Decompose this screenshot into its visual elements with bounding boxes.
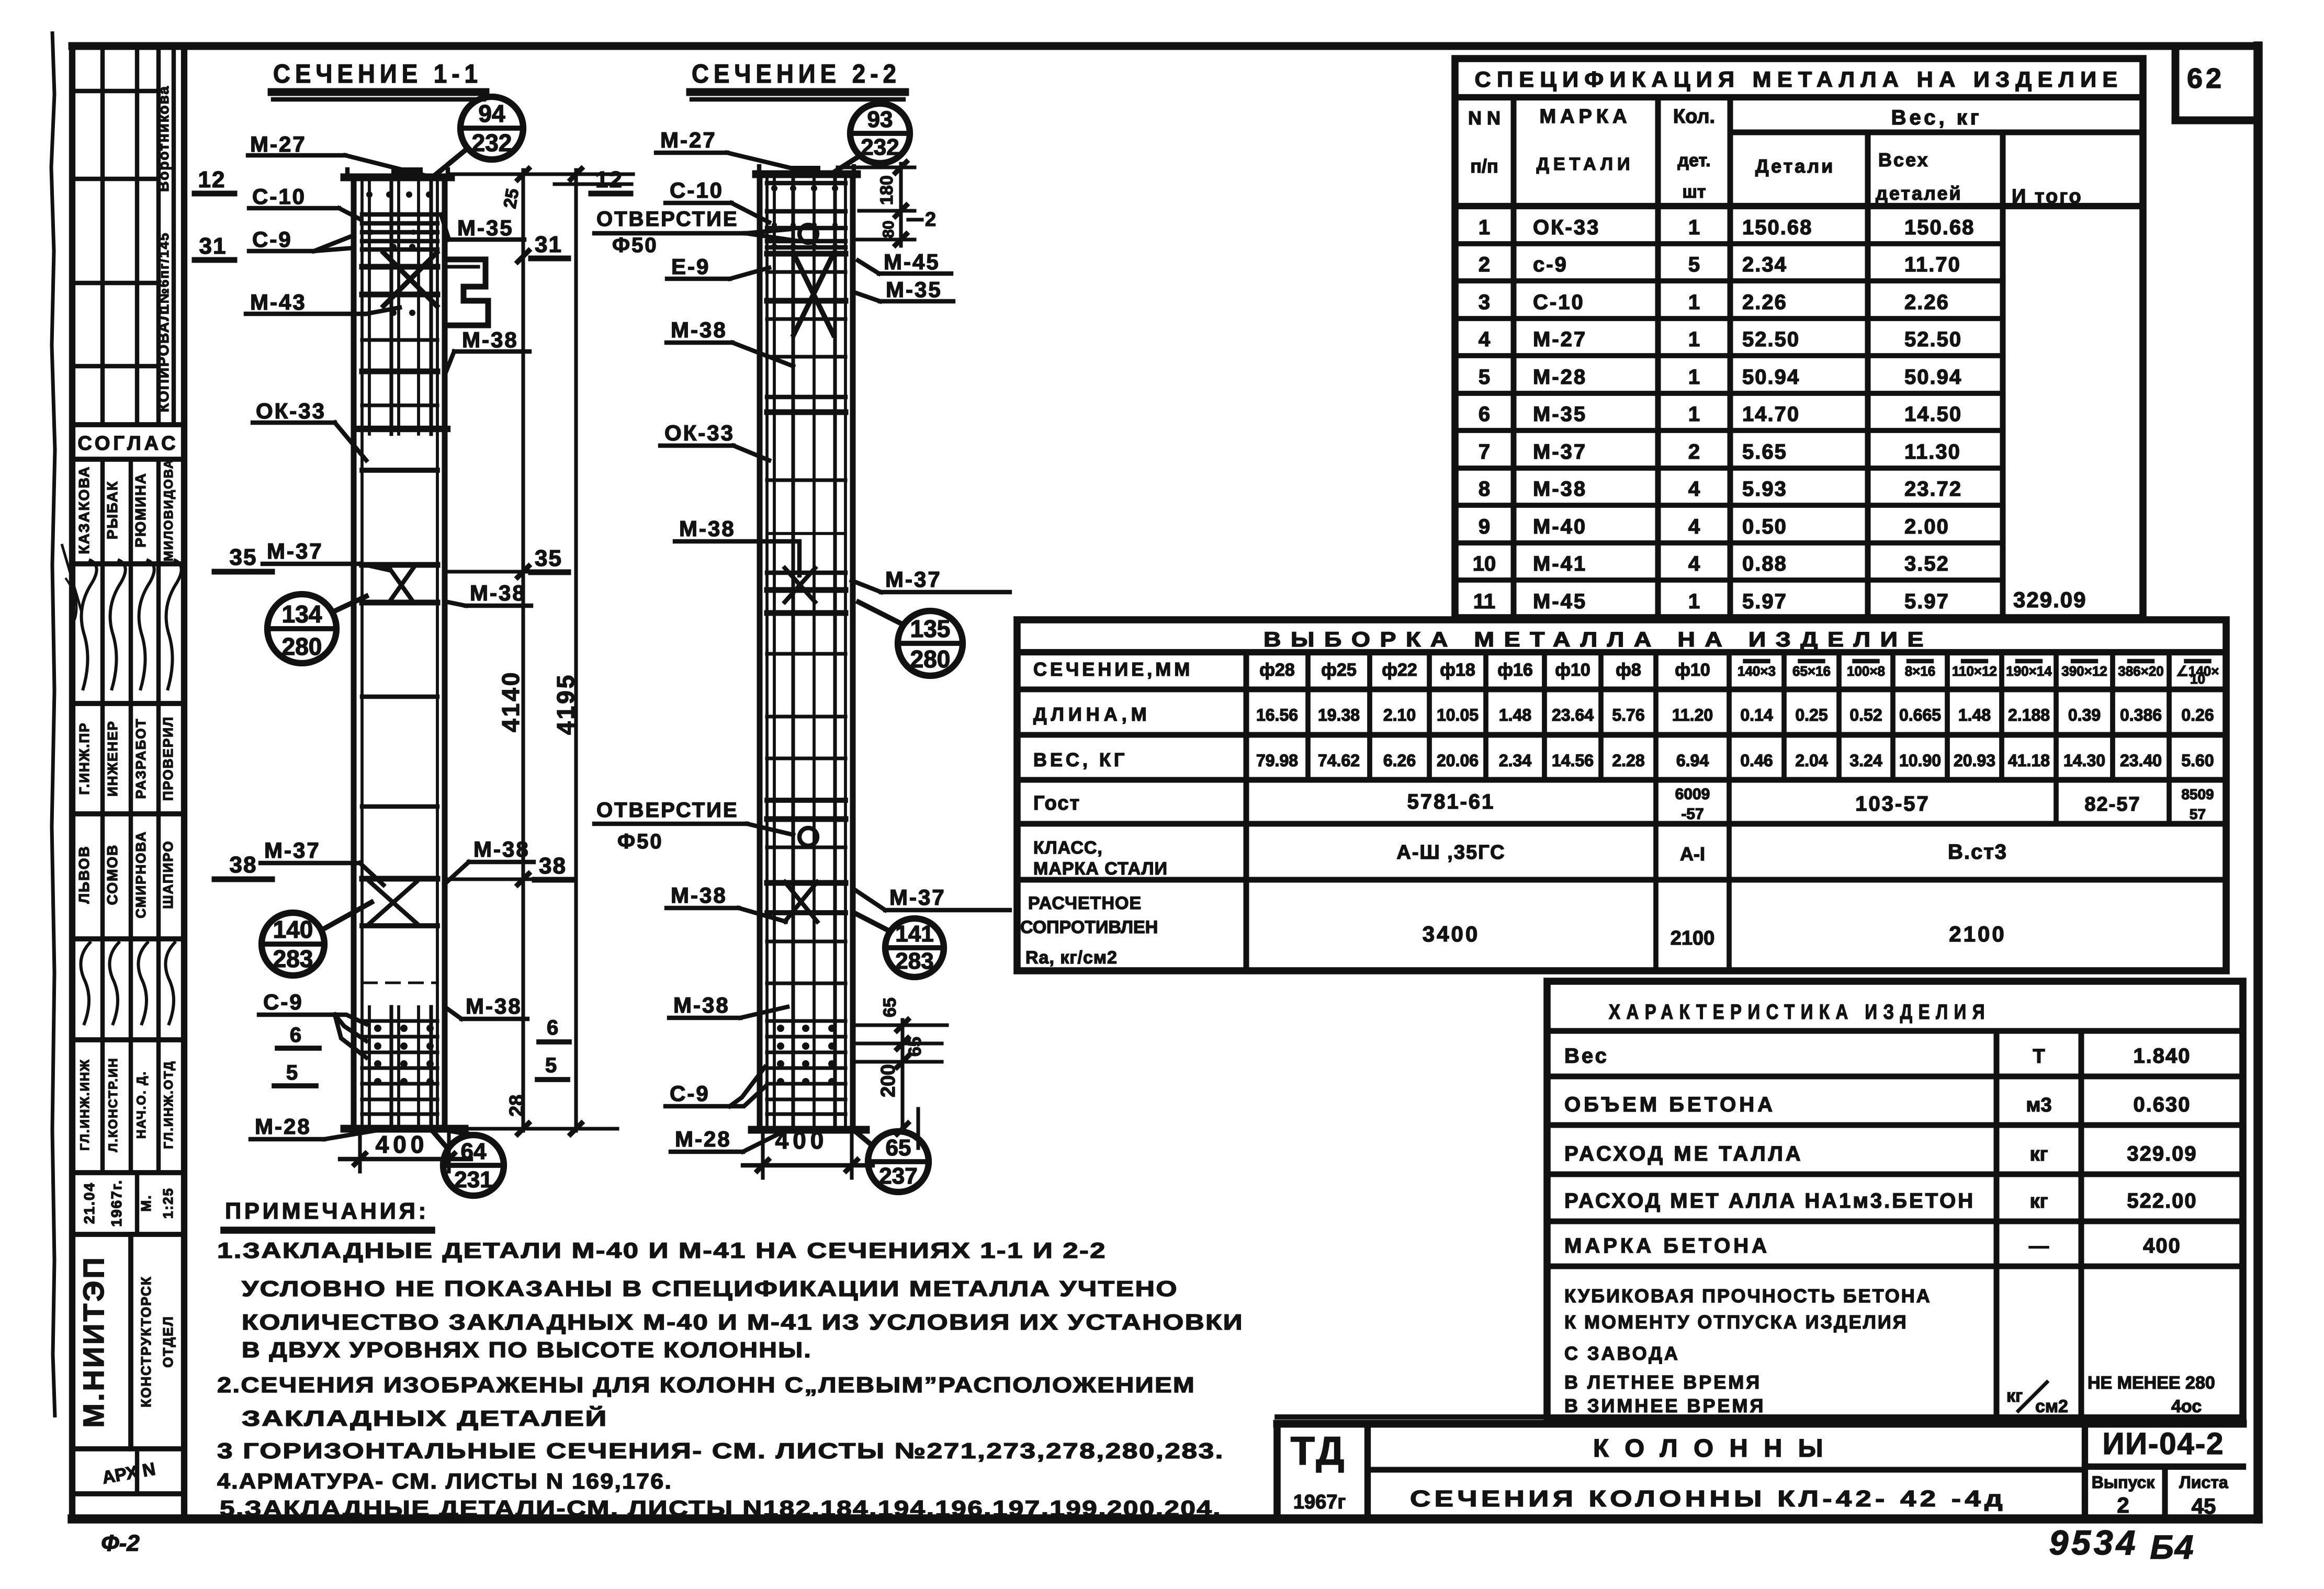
svg-text:6: 6 xyxy=(547,1016,558,1039)
svg-text:2.10: 2.10 xyxy=(1383,706,1416,724)
svg-text:3.52: 3.52 xyxy=(1904,552,1949,575)
svg-text:М-38: М-38 xyxy=(671,317,727,342)
svg-text:9534: 9534 xyxy=(2049,1523,2139,1562)
svg-text:Ф-2: Ф-2 xyxy=(101,1530,140,1556)
svg-text:КУБИКОВАЯ ПРОЧНОСТЬ БЕТОНА: КУБИКОВАЯ ПРОЧНОСТЬ БЕТОНА xyxy=(1564,1285,1932,1307)
svg-text:С ЗАВОДА: С ЗАВОДА xyxy=(1564,1343,1680,1364)
svg-text:38: 38 xyxy=(539,853,567,879)
svg-text:134: 134 xyxy=(282,600,322,628)
svg-text:М-27: М-27 xyxy=(660,128,717,152)
svg-text:3.24: 3.24 xyxy=(1849,751,1882,770)
svg-text:МИЛОВИДОВА: МИЛОВИДОВА xyxy=(162,459,176,562)
svg-text:ЗАКЛАДНЫХ ДЕТАЛЕЙ: ЗАКЛАДНЫХ ДЕТАЛЕЙ xyxy=(242,1405,608,1431)
svg-text:СПЕЦИФИКАЦИЯ МЕТАЛЛА НА ИЗДЕЛИ: СПЕЦИФИКАЦИЯ МЕТАЛЛА НА ИЗДЕЛИЕ xyxy=(1475,67,2124,92)
svg-text:М-45: М-45 xyxy=(1533,590,1587,613)
svg-text:А-I: А-I xyxy=(1680,843,1705,865)
svg-text:В ЛЕТНЕЕ ВРЕМЯ: В ЛЕТНЕЕ ВРЕМЯ xyxy=(1564,1371,1762,1393)
svg-text:ГЛ.ИНЖ.ОТД: ГЛ.ИНЖ.ОТД xyxy=(162,1060,176,1149)
svg-text:141: 141 xyxy=(895,921,933,947)
svg-text:СМИРНОВА: СМИРНОВА xyxy=(133,831,149,918)
svg-text:0.46: 0.46 xyxy=(1740,751,1773,770)
svg-text:2: 2 xyxy=(925,209,936,231)
svg-text:280: 280 xyxy=(910,645,951,673)
svg-text:м3: м3 xyxy=(2026,1094,2051,1116)
svg-text:ф18: ф18 xyxy=(1440,660,1475,680)
svg-text:50.94: 50.94 xyxy=(1904,366,1962,389)
svg-text:ДЕТАЛИ: ДЕТАЛИ xyxy=(1537,154,1634,174)
svg-text:0.26: 0.26 xyxy=(2181,706,2214,724)
svg-text:2100: 2100 xyxy=(1671,927,1715,949)
svg-text:0.665: 0.665 xyxy=(1899,706,1941,724)
svg-text:280: 280 xyxy=(282,633,322,660)
svg-text:1.48: 1.48 xyxy=(1958,706,1991,724)
svg-text:М-37: М-37 xyxy=(264,838,321,862)
svg-text:5.65: 5.65 xyxy=(1742,440,1787,463)
svg-text:ф10: ф10 xyxy=(1555,660,1590,680)
svg-text:5.97: 5.97 xyxy=(1742,590,1787,613)
svg-text:ф16: ф16 xyxy=(1497,660,1533,680)
svg-text:1: 1 xyxy=(1688,403,1700,426)
svg-text:0.88: 0.88 xyxy=(1742,552,1787,575)
svg-text:Б4: Б4 xyxy=(2150,1528,2195,1566)
svg-text:Гост: Гост xyxy=(1033,792,1080,814)
svg-text:2: 2 xyxy=(2117,1493,2129,1517)
svg-text:10.90: 10.90 xyxy=(1899,751,1941,770)
svg-text:2.26: 2.26 xyxy=(1904,291,1949,314)
svg-text:СЕЧЕНИЯ КОЛОННЫ КЛ-42- 42 -4д: СЕЧЕНИЯ КОЛОННЫ КЛ-42- 42 -4д xyxy=(1410,1486,2006,1512)
svg-text:6.26: 6.26 xyxy=(1383,751,1416,770)
svg-text:329.09: 329.09 xyxy=(2013,587,2086,612)
svg-text:ф10: ф10 xyxy=(1675,660,1710,680)
svg-text:ОТВЕРСТИЕ: ОТВЕРСТИЕ xyxy=(596,208,739,231)
svg-text:31: 31 xyxy=(199,233,227,259)
svg-text:КАЗАКОВА: КАЗАКОВА xyxy=(76,466,92,554)
svg-text:180: 180 xyxy=(877,175,897,205)
svg-text:В ДВУХ УРОВНЯХ ПО ВЫСОТЕ: В ДВУХ УРОВНЯХ ПО ВЫСОТЕ КОЛОННЫ. xyxy=(242,1337,812,1362)
svg-text:см2: см2 xyxy=(2035,1397,2068,1416)
svg-text:С-10: С-10 xyxy=(670,178,724,202)
svg-text:1: 1 xyxy=(1688,216,1700,239)
svg-text:РЫБАК: РЫБАК xyxy=(104,481,120,539)
svg-text:20.06: 20.06 xyxy=(1437,751,1479,770)
svg-text:82-57: 82-57 xyxy=(2084,793,2140,815)
svg-text:М-28: М-28 xyxy=(1533,366,1587,389)
svg-text:2.28: 2.28 xyxy=(1612,751,1644,770)
svg-text:390×12: 390×12 xyxy=(2061,663,2107,679)
svg-text:19.38: 19.38 xyxy=(1318,706,1360,724)
svg-text:10: 10 xyxy=(2190,671,2205,687)
svg-text:4140: 4140 xyxy=(497,671,524,732)
svg-text:65: 65 xyxy=(880,997,900,1017)
svg-text:М-37: М-37 xyxy=(1533,440,1587,463)
svg-text:2.00: 2.00 xyxy=(1904,515,1949,538)
svg-text:М-38: М-38 xyxy=(466,994,522,1018)
svg-text:25: 25 xyxy=(500,187,523,210)
svg-text:МАРКА СТАЛИ: МАРКА СТАЛИ xyxy=(1033,859,1168,879)
svg-text:Ф50: Ф50 xyxy=(617,830,663,853)
svg-text:35: 35 xyxy=(230,544,257,570)
svg-text:14.50: 14.50 xyxy=(1904,403,1962,426)
svg-text:5.97: 5.97 xyxy=(1904,590,1949,613)
svg-text:1: 1 xyxy=(1688,291,1700,314)
svg-text:РАСХОД МЕТ АЛЛА НА1м3.БЕТОН: РАСХОД МЕТ АЛЛА НА1м3.БЕТОН xyxy=(1564,1189,1975,1212)
svg-text:Rа, кг/см2: Rа, кг/см2 xyxy=(1025,948,1118,968)
svg-text:РАСХОД МЕ ТАЛЛА: РАСХОД МЕ ТАЛЛА xyxy=(1564,1142,1803,1165)
svg-text:ОБЪЕМ БЕТОНА: ОБЪЕМ БЕТОНА xyxy=(1564,1093,1776,1116)
svg-text:Детали: Детали xyxy=(1755,155,1835,177)
svg-text:6: 6 xyxy=(290,1024,301,1047)
svg-text:С-9: С-9 xyxy=(263,990,303,1014)
svg-text:КЛАСС,: КЛАСС, xyxy=(1033,838,1103,858)
svg-text:Л.КОНСТР.ИН: Л.КОНСТР.ИН xyxy=(106,1057,120,1152)
svg-text:23.40: 23.40 xyxy=(2120,751,2162,770)
svg-text:5: 5 xyxy=(545,1054,557,1077)
svg-text:ТД: ТД xyxy=(1291,1429,1347,1473)
svg-text:2.34: 2.34 xyxy=(1499,751,1531,770)
svg-text:52.50: 52.50 xyxy=(1904,328,1962,351)
svg-text:КОЛИЧЕСТВО ЗАКЛАДНЫХ М-40 И: КОЛИЧЕСТВО ЗАКЛАДНЫХ М-40 И М-41 ИЗ УСЛО… xyxy=(242,1310,1244,1334)
svg-text:0.14: 0.14 xyxy=(1740,706,1773,724)
svg-text:ДЛИНА,М: ДЛИНА,М xyxy=(1033,703,1151,725)
svg-text:4: 4 xyxy=(1479,328,1491,351)
svg-text:М.: М. xyxy=(138,1195,154,1212)
svg-text:ОТВЕРСТИЕ: ОТВЕРСТИЕ xyxy=(596,799,739,822)
svg-text:ЛЬВОВ: ЛЬВОВ xyxy=(76,845,92,903)
svg-text:РАСЧЕТНОЕ: РАСЧЕТНОЕ xyxy=(1028,893,1142,913)
svg-text:Е-9: Е-9 xyxy=(671,254,710,279)
svg-text:ШАПИРО: ШАПИРО xyxy=(160,840,176,909)
svg-text:103-57: 103-57 xyxy=(1855,792,1930,815)
svg-text:КОПИРОВАЛ: КОПИРОВАЛ xyxy=(155,310,172,412)
svg-text:2.СЕЧЕНИЯ ИЗОБРАЖЕНЫ ДЛЯ КО: 2.СЕЧЕНИЯ ИЗОБРАЖЕНЫ ДЛЯ КОЛОНН С„ЛЕВЫМ”… xyxy=(217,1372,1195,1397)
svg-text:79.98: 79.98 xyxy=(1256,751,1298,770)
svg-text:ОК-33: ОК-33 xyxy=(256,399,326,423)
svg-text:2100: 2100 xyxy=(1949,922,2006,946)
svg-text:ИНЖЕНЕР: ИНЖЕНЕР xyxy=(105,720,120,797)
svg-text:Ф50: Ф50 xyxy=(612,234,658,257)
svg-text:110×12: 110×12 xyxy=(1952,663,1997,679)
svg-text:М-38: М-38 xyxy=(679,516,736,541)
svg-text:5.76: 5.76 xyxy=(1612,706,1644,724)
svg-text:1.ЗАКЛАДНЫЕ ДЕТАЛИ М-40 И М-: 1.ЗАКЛАДНЫЕ ДЕТАЛИ М-40 И М-41 НА СЕЧЕНИ… xyxy=(217,1238,1107,1263)
svg-text:41.18: 41.18 xyxy=(2008,751,2050,770)
svg-text:НАЧ.О. Д.: НАЧ.О. Д. xyxy=(134,1071,149,1139)
svg-text:0.386: 0.386 xyxy=(2120,706,2162,724)
svg-text:1: 1 xyxy=(1688,366,1700,389)
svg-text:0.50: 0.50 xyxy=(1742,515,1787,538)
svg-text:СЕЧЕНИЕ,ММ: СЕЧЕНИЕ,ММ xyxy=(1033,659,1193,680)
svg-text:4195: 4195 xyxy=(552,673,579,735)
svg-text:0.25: 0.25 xyxy=(1795,706,1827,724)
svg-text:2.26: 2.26 xyxy=(1742,291,1787,314)
svg-text:М-40: М-40 xyxy=(1533,515,1587,538)
svg-text:СЕЧЕНИЕ 1-1: СЕЧЕНИЕ 1-1 xyxy=(273,59,482,88)
svg-text:М-45: М-45 xyxy=(884,249,940,274)
svg-text:3 ГОРИЗОНТАЛЬНЫЕ СЕЧЕНИЯ- СМ.: 3 ГОРИЗОНТАЛЬНЫЕ СЕЧЕНИЯ- СМ. ЛИСТЫ №271… xyxy=(217,1438,1224,1463)
svg-text:283: 283 xyxy=(273,945,313,972)
svg-text:шт: шт xyxy=(1683,182,1706,202)
svg-text:п/п: п/п xyxy=(1470,155,1498,177)
svg-text:М-38: М-38 xyxy=(1533,478,1587,501)
svg-text:0.39: 0.39 xyxy=(2068,706,2101,724)
svg-text:В ЗИМНЕЕ ВРЕМЯ: В ЗИМНЕЕ ВРЕМЯ xyxy=(1564,1395,1765,1416)
svg-text:МАРКА: МАРКА xyxy=(1539,106,1631,128)
svg-text:74.62: 74.62 xyxy=(1318,751,1360,770)
svg-text:ВЫБОРКА МЕТАЛЛА НА ИЗДЕЛИЕ: ВЫБОРКА МЕТАЛЛА НА ИЗДЕЛИЕ xyxy=(1263,628,1933,651)
svg-text:ПРОВЕРИЛ: ПРОВЕРИЛ xyxy=(160,716,176,801)
svg-text:140×3: 140×3 xyxy=(1738,663,1776,679)
svg-text:400: 400 xyxy=(376,1131,428,1158)
svg-text:5: 5 xyxy=(1688,253,1700,276)
svg-text:80: 80 xyxy=(880,221,897,238)
svg-text:1.48: 1.48 xyxy=(1499,706,1531,724)
svg-text:Вес, кг: Вес, кг xyxy=(1891,106,1982,129)
svg-text:дет.: дет. xyxy=(1677,151,1710,171)
svg-text:65: 65 xyxy=(886,1135,911,1161)
svg-text:НЕ МЕНЕЕ 280: НЕ МЕНЕЕ 280 xyxy=(2088,1373,2215,1393)
svg-text:кг: кг xyxy=(2030,1190,2048,1212)
svg-text:М-41: М-41 xyxy=(1533,552,1587,575)
svg-text:СОМОВ: СОМОВ xyxy=(104,844,120,905)
svg-text:К МОМЕНТУ ОТПУСКА ИЗДЕЛИЯ: К МОМЕНТУ ОТПУСКА ИЗДЕЛИЯ xyxy=(1564,1311,1908,1333)
svg-text:—: — xyxy=(2029,1235,2049,1257)
svg-text:6: 6 xyxy=(1479,403,1490,426)
svg-text:135: 135 xyxy=(910,615,951,642)
svg-text:М-28: М-28 xyxy=(675,1127,731,1151)
svg-text:45: 45 xyxy=(2192,1494,2216,1518)
svg-text:Г.ИНЖ.ПР: Г.ИНЖ.ПР xyxy=(76,722,92,795)
svg-text:1967г: 1967г xyxy=(1293,1491,1346,1513)
svg-text:38: 38 xyxy=(230,852,257,878)
svg-text:65: 65 xyxy=(905,1037,925,1057)
svg-text:11: 11 xyxy=(1473,590,1495,613)
svg-text:4ос: 4ос xyxy=(2171,1397,2202,1416)
svg-text:23.64: 23.64 xyxy=(1552,706,1594,724)
svg-text:200: 200 xyxy=(877,1064,899,1097)
svg-text:И того: И того xyxy=(2012,186,2083,208)
svg-text:1967г.: 1967г. xyxy=(108,1179,125,1227)
svg-text:231: 231 xyxy=(454,1167,492,1193)
svg-text:Листа: Листа xyxy=(2179,1473,2228,1492)
svg-text:100×8: 100×8 xyxy=(1847,663,1885,679)
svg-text:Всех: Всех xyxy=(1878,149,1930,171)
svg-text:ОК-33: ОК-33 xyxy=(1533,216,1600,239)
svg-text:190×14: 190×14 xyxy=(2006,663,2052,679)
svg-text:ОТДЕЛ: ОТДЕЛ xyxy=(160,1315,176,1368)
svg-text:РАЗРАБОТ: РАЗРАБОТ xyxy=(133,718,149,799)
svg-text:10.05: 10.05 xyxy=(1437,706,1479,724)
svg-text:1: 1 xyxy=(1688,590,1700,613)
svg-text:64: 64 xyxy=(461,1139,487,1164)
svg-text:35: 35 xyxy=(535,546,562,571)
svg-text:С-10: С-10 xyxy=(252,184,306,209)
svg-text:522.00: 522.00 xyxy=(2127,1189,2197,1212)
svg-text:12: 12 xyxy=(595,167,623,192)
svg-text:ф25: ф25 xyxy=(1321,660,1357,680)
svg-text:8×16: 8×16 xyxy=(1905,663,1936,679)
svg-text:50.94: 50.94 xyxy=(1742,366,1800,389)
svg-text:2.188: 2.188 xyxy=(2008,706,2050,724)
svg-text:11.20: 11.20 xyxy=(1672,706,1713,724)
svg-text:РЮМИНА: РЮМИНА xyxy=(132,472,149,547)
svg-text:8509: 8509 xyxy=(2181,786,2214,802)
svg-text:20.93: 20.93 xyxy=(1954,751,1995,770)
svg-text:65×16: 65×16 xyxy=(1792,663,1831,679)
svg-text:ОК-33: ОК-33 xyxy=(664,421,735,445)
svg-text:400: 400 xyxy=(2143,1234,2181,1257)
svg-text:12: 12 xyxy=(198,167,226,192)
svg-text:Кол.: Кол. xyxy=(1673,106,1715,128)
svg-text:КОЛОННЫ: КОЛОННЫ xyxy=(1593,1435,1839,1462)
svg-text:4.АРМАТУРА- СМ. ЛИСТЫ N 169,1: 4.АРМАТУРА- СМ. ЛИСТЫ N 169,176. xyxy=(217,1469,672,1493)
svg-text:3400: 3400 xyxy=(1423,922,1480,946)
svg-text:14.30: 14.30 xyxy=(2063,751,2105,770)
svg-text:0.630: 0.630 xyxy=(2133,1093,2191,1116)
svg-text:28: 28 xyxy=(506,1095,528,1117)
svg-text:-57: -57 xyxy=(1681,805,1703,823)
svg-text:С-9: С-9 xyxy=(670,1081,710,1106)
svg-text:6009: 6009 xyxy=(1675,786,1710,803)
svg-text:деталей: деталей xyxy=(1876,183,1962,204)
svg-text:С-9: С-9 xyxy=(252,227,292,252)
svg-text:232: 232 xyxy=(861,134,899,160)
svg-text:В.ст3: В.ст3 xyxy=(1948,841,2007,864)
svg-text:150.68: 150.68 xyxy=(1742,216,1812,239)
svg-text:31: 31 xyxy=(535,232,562,257)
svg-text:5.93: 5.93 xyxy=(1742,478,1787,501)
svg-text:140: 140 xyxy=(273,916,313,943)
svg-text:6.94: 6.94 xyxy=(1676,751,1709,770)
svg-text:А-Ш ,35ГС: А-Ш ,35ГС xyxy=(1396,842,1505,864)
svg-text:2: 2 xyxy=(1479,253,1490,276)
svg-text:52.50: 52.50 xyxy=(1742,328,1800,351)
svg-text:5: 5 xyxy=(286,1061,298,1084)
svg-text:МАРКА БЕТОНА: МАРКА БЕТОНА xyxy=(1564,1234,1770,1257)
svg-text:ПРИМЕЧАНИЯ:: ПРИМЕЧАНИЯ: xyxy=(225,1198,429,1224)
svg-text:3: 3 xyxy=(1479,291,1490,314)
svg-text:2.04: 2.04 xyxy=(1795,751,1827,770)
svg-text:с-9: с-9 xyxy=(1533,253,1568,276)
svg-text:М-27: М-27 xyxy=(250,132,307,156)
svg-text:94: 94 xyxy=(478,100,505,127)
svg-text:7: 7 xyxy=(1479,440,1490,463)
svg-text:СЕЧЕНИЕ 2-2: СЕЧЕНИЕ 2-2 xyxy=(692,59,901,88)
svg-text:4: 4 xyxy=(1688,552,1700,575)
svg-text:кг: кг xyxy=(2006,1386,2023,1406)
svg-text:9: 9 xyxy=(1479,515,1490,538)
svg-text:11.70: 11.70 xyxy=(1904,253,1961,276)
svg-text:ВЕС, КГ: ВЕС, КГ xyxy=(1033,749,1127,770)
svg-text:4: 4 xyxy=(1688,478,1700,501)
svg-text:СОГЛАС: СОГЛАС xyxy=(77,433,178,455)
svg-text:кг: кг xyxy=(2030,1143,2048,1165)
svg-text:0.52: 0.52 xyxy=(1849,706,1882,724)
svg-text:1.840: 1.840 xyxy=(2133,1045,2191,1068)
svg-text:1: 1 xyxy=(1688,328,1700,351)
svg-text:Т: Т xyxy=(2033,1046,2045,1068)
svg-text:1№6пг/145: 1№6пг/145 xyxy=(156,232,172,312)
svg-text:М-35: М-35 xyxy=(886,277,942,302)
svg-text:ф22: ф22 xyxy=(1382,660,1417,680)
svg-text:4: 4 xyxy=(1688,515,1700,538)
svg-text:КОНСТРУКТОРСК: КОНСТРУКТОРСК xyxy=(138,1276,154,1407)
svg-text:2: 2 xyxy=(1688,440,1700,463)
svg-text:ф28: ф28 xyxy=(1259,660,1295,680)
svg-text:ГЛ.ИНЖ.ИНЖ: ГЛ.ИНЖ.ИНЖ xyxy=(78,1059,92,1151)
svg-text:М-35: М-35 xyxy=(1533,403,1587,426)
svg-text:Вес: Вес xyxy=(1564,1045,1609,1068)
svg-text:150.68: 150.68 xyxy=(1904,216,1975,239)
svg-text:М-28: М-28 xyxy=(255,1114,311,1139)
svg-text:8: 8 xyxy=(1479,478,1490,501)
svg-text:М-27: М-27 xyxy=(1533,328,1587,351)
svg-text:283: 283 xyxy=(895,948,933,974)
svg-text:5: 5 xyxy=(1479,366,1490,389)
svg-text:М-37: М-37 xyxy=(885,567,942,592)
svg-text:УСЛОВНО НЕ ПОКАЗАНЫ В СПЕЦИФИК: УСЛОВНО НЕ ПОКАЗАНЫ В СПЕЦИФИКАЦИИ МЕТАЛ… xyxy=(242,1276,1178,1301)
svg-text:23.72: 23.72 xyxy=(1904,478,1962,501)
svg-text:2.34: 2.34 xyxy=(1742,253,1787,276)
svg-text:1:25: 1:25 xyxy=(160,1187,176,1219)
svg-text:5.ЗАКЛАДНЫЕ ДЕТАЛИ-СМ. ЛИСТЫ: 5.ЗАКЛАДНЫЕ ДЕТАЛИ-СМ. ЛИСТЫ N182,184,19… xyxy=(220,1496,1222,1520)
svg-text:N N: N N xyxy=(1468,107,1501,129)
svg-text:М-35: М-35 xyxy=(457,215,514,240)
svg-text:14.56: 14.56 xyxy=(1552,751,1594,770)
svg-text:237: 237 xyxy=(879,1163,917,1189)
svg-text:62: 62 xyxy=(2187,63,2225,94)
svg-text:21.04: 21.04 xyxy=(81,1182,97,1224)
svg-text:М-38: М-38 xyxy=(671,883,727,907)
svg-text:10: 10 xyxy=(1473,552,1496,575)
svg-text:329.09: 329.09 xyxy=(2127,1142,2197,1165)
svg-text:СОПРОТИВЛЕН: СОПРОТИВЛЕН xyxy=(1020,917,1158,937)
svg-text:232: 232 xyxy=(472,129,512,156)
svg-text:5781-61: 5781-61 xyxy=(1407,790,1495,813)
svg-text:М-38: М-38 xyxy=(462,327,518,352)
svg-text:М-37: М-37 xyxy=(267,539,323,563)
svg-text:М-37: М-37 xyxy=(889,885,946,910)
svg-text:1: 1 xyxy=(1479,216,1490,239)
svg-text:14.70: 14.70 xyxy=(1742,403,1800,426)
svg-text:Воротникова: Воротникова xyxy=(155,85,172,192)
svg-text:16.56: 16.56 xyxy=(1256,706,1298,724)
svg-text:11.30: 11.30 xyxy=(1904,440,1961,463)
svg-text:5.60: 5.60 xyxy=(2181,751,2214,770)
svg-text:С-10: С-10 xyxy=(1533,291,1585,314)
svg-text:57: 57 xyxy=(2190,806,2206,822)
svg-text:М.НИИТЭП: М.НИИТЭП xyxy=(77,1255,110,1427)
svg-text:М-43: М-43 xyxy=(250,290,307,314)
svg-text:93: 93 xyxy=(867,107,893,132)
svg-text:Выпуск: Выпуск xyxy=(2092,1473,2156,1492)
svg-text:ХАРАКТЕРИСТИКА ИЗДЕЛИЯ: ХАРАКТЕРИСТИКА ИЗДЕЛИЯ xyxy=(1609,1001,1991,1024)
svg-text:М-38: М-38 xyxy=(673,993,730,1017)
svg-text:М-38: М-38 xyxy=(470,581,526,605)
svg-text:ф8: ф8 xyxy=(1616,660,1641,680)
svg-text:ИИ-04-2: ИИ-04-2 xyxy=(2103,1427,2225,1461)
svg-text:386×20: 386×20 xyxy=(2118,663,2163,679)
